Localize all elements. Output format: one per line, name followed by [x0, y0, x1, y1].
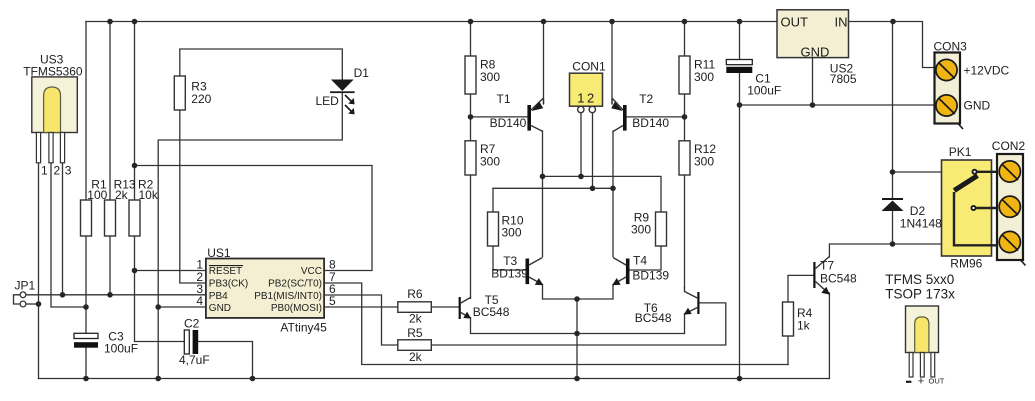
- svg-text:2: 2: [54, 164, 61, 178]
- wire T2 emitter to bus: [611, 22, 613, 105]
- wire CON1 pin2 column: [592, 113, 594, 189]
- wire R8 column to bus: [470, 22, 472, 57]
- svg-text:OUT: OUT: [781, 14, 809, 29]
- US3 pin 3: [60, 133, 64, 163]
- CON2 screw 3: [999, 231, 1020, 252]
- svg-text:RESET: RESET: [209, 266, 242, 277]
- wire R7 bottom to T5 collector: [470, 175, 472, 297]
- wire top +5V bus left of US2: [86, 21, 777, 23]
- svg-text:TFMS 5xx0: TFMS 5xx0: [885, 272, 954, 287]
- wire CON1 pin1 column: [580, 113, 582, 177]
- svg-text:2k: 2k: [409, 312, 423, 326]
- svg-text:BD140: BD140: [490, 116, 527, 130]
- CON3 screw GND: [936, 95, 957, 116]
- svg-text:2k: 2k: [115, 188, 129, 202]
- resistor R2: [129, 200, 140, 236]
- svg-text:LED: LED: [316, 94, 340, 108]
- svg-text:BC548: BC548: [473, 305, 510, 319]
- wire JP1 top to US1 pin3 PB4: [26, 294, 206, 296]
- connector CON2: [997, 154, 1026, 266]
- wire US1 pin5 PB0 to R6: [325, 306, 398, 308]
- svg-text:1N4148: 1N4148: [900, 216, 942, 230]
- svg-text:PB4: PB4: [209, 291, 228, 302]
- IC US1 ATtiny45 box: [206, 259, 324, 318]
- wire T2 base row to R11/R12: [627, 116, 685, 118]
- svg-text:BD140: BD140: [632, 116, 669, 130]
- svg-text:4: 4: [196, 294, 203, 308]
- wire GND row 7805: [740, 104, 937, 106]
- svg-text:+: +: [918, 376, 924, 388]
- transistor T4 (NPN BD139): [612, 258, 629, 286]
- jumper JP1: [14, 292, 26, 307]
- svg-text:1: 1: [41, 164, 48, 178]
- svg-text:BD139: BD139: [632, 268, 669, 282]
- wire R5 to T6 base: [431, 303, 726, 345]
- wire T7 collector row to relay coil: [829, 244, 941, 257]
- wire R10 column from row2: [492, 188, 494, 212]
- wire D1 cathode return to GND column: [158, 93, 342, 379]
- wire T3/T4 emitters junction to GND: [543, 285, 614, 300]
- svg-text:CON3: CON3: [934, 40, 968, 54]
- wire T2/T4 collector column: [612, 131, 614, 257]
- US1 pin numbers: [196, 258, 336, 309]
- wire R1 column top: [85, 22, 87, 201]
- CON3 screw +12VDC: [936, 59, 957, 80]
- svg-text:T7: T7: [820, 259, 834, 273]
- wire US1 GND pin4 to GND column: [158, 306, 206, 308]
- svg-text:300: 300: [694, 70, 714, 84]
- svg-text:T4: T4: [633, 254, 647, 268]
- wire emitter node down: [576, 299, 578, 379]
- svg-text:OUT: OUT: [929, 377, 945, 386]
- wire R2 bottom to C2 left plate: [135, 236, 185, 342]
- wire US1 pin7 PB2 to R4 bottom: [325, 283, 788, 365]
- wire R4 bottom column: [787, 336, 789, 365]
- svg-text:CON2: CON2: [992, 139, 1026, 153]
- capacitor C2: [184, 330, 198, 354]
- resistor R1: [81, 200, 92, 236]
- svg-text:1k: 1k: [797, 319, 811, 333]
- wire US3 pin2 down to R1/C3 node: [51, 163, 86, 307]
- wire motor row 2 from R10: [493, 187, 613, 189]
- resistor R6: [398, 302, 432, 313]
- US3 pin 1: [36, 133, 40, 163]
- wire RESET pin1 row from R2 lower column: [135, 270, 206, 272]
- resistor R9: [656, 212, 667, 246]
- svg-text:10k: 10k: [139, 188, 159, 202]
- svg-text:T2: T2: [639, 92, 653, 106]
- svg-text:5: 5: [329, 294, 336, 308]
- wire T7 base loop via R4: [788, 275, 813, 302]
- svg-text:100: 100: [87, 188, 107, 202]
- svg-text:300: 300: [480, 70, 500, 84]
- svg-text:GND: GND: [209, 303, 231, 314]
- resistor R8: [465, 56, 476, 94]
- svg-text:ATtiny45: ATtiny45: [280, 321, 327, 335]
- svg-text:300: 300: [631, 223, 651, 237]
- svg-text:D1: D1: [354, 66, 370, 80]
- svg-text:BD139: BD139: [491, 266, 528, 280]
- wire R13 column top: [109, 22, 111, 201]
- resistor R4: [783, 302, 794, 336]
- wire R8 bottom to T1 base node: [470, 94, 472, 141]
- capacitor C3: [74, 333, 98, 347]
- wire R11 bottom to T2 base node: [684, 94, 686, 141]
- svg-text:PB3(CK): PB3(CK): [209, 279, 248, 290]
- svg-text:BC548: BC548: [635, 311, 672, 325]
- wire R10 bottom to T3 base: [493, 246, 526, 270]
- wire T1/T3 collector column: [542, 131, 544, 257]
- transistor T1 (PNP BD140): [527, 98, 543, 132]
- US1 pin names: [209, 266, 322, 314]
- svg-text:BC548: BC548: [820, 272, 857, 286]
- wire D2 anode stub: [892, 211, 894, 244]
- wire US3 pin1 down to GND bus corner: [38, 163, 40, 379]
- svg-text:VCC: VCC: [301, 266, 322, 277]
- IR receiver US3 body: [32, 77, 78, 163]
- transistor T7 (NPN BC548): [813, 257, 830, 295]
- resistor R13: [105, 200, 116, 236]
- wire C3 column: [85, 307, 87, 379]
- svg-text:300: 300: [694, 155, 714, 169]
- TSOP pin labels - + OUT: [906, 376, 945, 388]
- svg-text:PB0(MOSI): PB0(MOSI): [271, 303, 322, 314]
- svg-text:US1: US1: [207, 246, 231, 260]
- TSOP pinout drawing (bottom right): [906, 306, 939, 377]
- wire R13 bottom to PB4 row: [109, 236, 111, 295]
- svg-text:2: 2: [587, 91, 594, 106]
- svg-text:R6: R6: [407, 287, 423, 301]
- resistor R7: [465, 141, 476, 175]
- wire R11 column to bus: [684, 22, 686, 57]
- svg-text:220: 220: [191, 92, 211, 106]
- wire T7 emitter to bus end: [828, 293, 830, 379]
- connector CON3: [935, 53, 964, 130]
- svg-text:GND: GND: [801, 44, 830, 59]
- transistor T2 (PNP BD140): [611, 98, 626, 132]
- svg-text:100uF: 100uF: [104, 342, 138, 356]
- svg-text:RM96: RM96: [950, 256, 982, 270]
- svg-text:TFMS5360: TFMS5360: [23, 64, 83, 78]
- svg-text:T1: T1: [497, 92, 511, 106]
- wire R12 bottom to T6 collector: [684, 175, 686, 287]
- transistor T6 (NPN BC548 mirrored): [684, 287, 700, 334]
- resistor R12: [679, 141, 690, 175]
- wire R3 top rail to D1 anode: [180, 49, 342, 79]
- IC US2 7805 box: [777, 10, 849, 58]
- svg-text:GND: GND: [964, 99, 991, 113]
- svg-text:C2: C2: [184, 317, 200, 331]
- svg-text:R5: R5: [407, 326, 423, 340]
- wire +12V bus from US2 IN to CON3: [849, 22, 937, 68]
- CON2 screw 2: [999, 196, 1020, 217]
- US3 pin 2: [49, 133, 53, 163]
- wire R9 bottom to T4 base: [630, 246, 662, 270]
- wire R3 bottom to US1 pin2 PB3: [180, 110, 206, 283]
- connector CON1: [570, 73, 603, 113]
- svg-text:JP1: JP1: [15, 279, 36, 293]
- svg-text:100uF: 100uF: [747, 84, 781, 98]
- wire JP1 bottom to GND column: [26, 303, 39, 305]
- relay PK1: [942, 160, 1001, 256]
- svg-text:7805: 7805: [830, 72, 857, 86]
- CON2 screw 1: [999, 161, 1020, 182]
- svg-text:CON1: CON1: [572, 59, 606, 73]
- LED D1: [330, 80, 355, 115]
- svg-text:+12VDC: +12VDC: [964, 63, 1010, 77]
- svg-text:IN: IN: [835, 14, 848, 29]
- transistor T3 (NPN BD139): [526, 258, 544, 286]
- resistor R5: [398, 340, 432, 351]
- wire D2 column to +12 bus: [893, 22, 942, 173]
- wire VCC row from R2 column to pin 8: [135, 166, 373, 271]
- wire T5/T6 emitter row: [471, 333, 685, 335]
- wire motor row 1 to R9 top: [543, 176, 662, 212]
- svg-text:4,7uF: 4,7uF: [179, 353, 210, 367]
- wire US3 pin3 down to PB4 row: [62, 163, 64, 295]
- svg-text:TSOP 173x: TSOP 173x: [885, 286, 955, 301]
- svg-text:PB1(MIS/INT0): PB1(MIS/INT0): [254, 291, 322, 302]
- resistor R10: [488, 212, 499, 246]
- svg-text:300: 300: [502, 226, 522, 240]
- svg-text:PB2(SC/T0): PB2(SC/T0): [268, 279, 322, 290]
- svg-text:1: 1: [577, 91, 584, 106]
- transistor T5 (NPN BC548): [459, 297, 472, 334]
- resistor R3: [174, 76, 185, 110]
- resistor R11: [679, 56, 690, 94]
- svg-text:3: 3: [65, 164, 72, 178]
- wire T1 emitter to bus: [543, 22, 545, 105]
- label TFMS 5xx0 / TSOP 173x: [885, 272, 955, 301]
- wire R2 column top: [134, 22, 136, 201]
- wire 7805 GND pin: [812, 58, 814, 105]
- capacitor C1: [726, 60, 752, 74]
- wire R1 bottom to node: [85, 236, 87, 307]
- wire D2 cathode stub: [892, 172, 894, 198]
- wire C2 right to GND bus: [198, 342, 252, 379]
- diode D2: [882, 198, 904, 211]
- svg-text:2k: 2k: [409, 350, 423, 364]
- wire C1 column: [739, 22, 741, 379]
- wire R6 to T5 base: [431, 306, 459, 308]
- wire T1 base row: [471, 116, 528, 118]
- svg-text:PK1: PK1: [949, 145, 972, 159]
- wire GND bottom bus: [39, 378, 830, 380]
- RESET overline: [209, 265, 243, 267]
- svg-text:300: 300: [480, 155, 500, 169]
- resistors (vertical): [81, 56, 794, 350]
- wire US1 pin6 PB1 to R5: [325, 295, 398, 345]
